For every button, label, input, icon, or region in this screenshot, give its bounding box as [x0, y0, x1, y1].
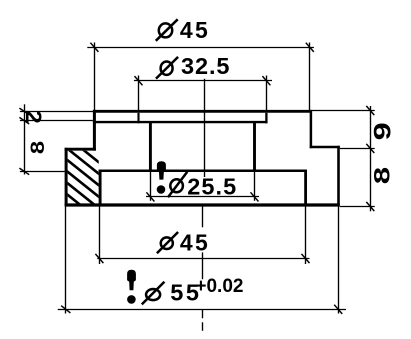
- tick Ø45 bottom left: [95, 254, 103, 263]
- wire: centerline stub upper (axis of symmetry): [204, 79, 206, 177]
- part edge: left step shoulder: [65, 148, 96, 151]
- dimension line Ø45 top: [87, 47, 314, 49]
- part edge: bottom surface: [65, 203, 340, 206]
- diameter symbol for Ø25.5: [168, 172, 187, 197]
- dimension line Ø45 bottom: [97, 258, 309, 260]
- extension line Ø25.5 right (below bore wall): [254, 171, 256, 201]
- tick Ø25.5 right: [251, 192, 259, 201]
- wire: centerline dash 1 below Ø55 line: [202, 310, 204, 319]
- part edge: internal shelf surface: [99, 169, 307, 172]
- part edge: Ø32.5 recess right wall: [265, 113, 267, 124]
- extension line right at y=206.5: [340, 206, 375, 208]
- extension line Ø32.5 left: [138, 76, 140, 111]
- dimension line Ø25.5: [146, 196, 259, 198]
- diameter symbol for Ø55: [142, 282, 165, 305]
- part edge: inner right wall below shelf: [304, 170, 307, 206]
- hatching: section hatch in lower-left flange ring: [66, 136, 152, 262]
- tick left dim bottom: [19, 168, 29, 175]
- extension line right at y=148.4: [340, 148, 375, 150]
- dimension line Ø32.5: [134, 80, 272, 82]
- extension line Ø45 top right: [309, 43, 311, 111]
- extension line left at y=171.4: [20, 171, 65, 173]
- tick Ø25.5 left: [146, 192, 154, 201]
- extension line Ø45 top left: [94, 43, 96, 111]
- wire: centerline segment below part: [202, 207, 204, 228]
- left vertical dimension line (2 and 8): [24, 104, 26, 174]
- extension line right at y=110.5: [312, 110, 375, 112]
- part edge: Ø25.5 bore left wall: [149, 122, 152, 171]
- extension line Ø32.5 right: [266, 76, 268, 111]
- extension line left at y=120.7: [20, 120, 93, 122]
- tick right dim top: [366, 106, 374, 115]
- svg-text:8: 8: [26, 141, 48, 154]
- tick right dim middle: [366, 144, 374, 153]
- svg-text:45: 45: [180, 17, 210, 43]
- tick Ø55 right: [334, 305, 342, 314]
- svg-text:25.5: 25.5: [187, 173, 237, 199]
- svg-text:8: 8: [369, 167, 395, 184]
- part edge: underside of top plate: [93, 121, 268, 123]
- svg-text:32.5: 32.5: [181, 53, 230, 79]
- tick left dim top: [19, 108, 29, 115]
- extension line Ø55 right: [338, 207, 340, 314]
- extension line left at y=111.4: [20, 111, 93, 113]
- part edge: upper left outer wall: [93, 110, 96, 151]
- svg-text:9: 9: [369, 122, 396, 140]
- part edge: upper right outer wall: [310, 110, 313, 148]
- part edge: Ø32.5 recess left wall: [137, 113, 139, 124]
- tick Ø45 bottom right: [302, 254, 310, 263]
- part edge: Ø25.5 bore right wall: [253, 122, 256, 171]
- diameter symbol for Ø45 bottom: [157, 232, 178, 253]
- wire: centerline segment between bottom dimension lines: [202, 252, 204, 279]
- tick left dim middle: [19, 117, 29, 124]
- part edge: inner left wall below shelf: [99, 170, 102, 206]
- part edge: lower left outer wall: [65, 148, 68, 206]
- tick Ø45 top right: [306, 43, 314, 52]
- diameter symbol for Ø45 top: [156, 19, 178, 41]
- tick Ø55 left: [61, 306, 70, 313]
- diameter symbol for Ø32.5: [156, 57, 178, 79]
- right vertical dimension line (9 and 8): [370, 106, 372, 211]
- tick Ø45 top left: [90, 43, 98, 52]
- tick Ø32.5 right: [262, 76, 270, 85]
- extension line Ø45 bottom left: [99, 207, 101, 265]
- exclamation symbol at Ø55: [127, 270, 136, 304]
- tick Ø32.5 left: [135, 76, 143, 85]
- extension line Ø25.5 left (below bore wall): [150, 171, 152, 201]
- dimension line Ø55: [58, 309, 346, 311]
- svg-text:+0.02: +0.02: [195, 276, 243, 297]
- part edge: top surface (Ø45 face): [93, 110, 312, 113]
- extension line Ø45 bottom right: [305, 207, 307, 265]
- part edge: right step shoulder: [310, 146, 340, 148]
- part edge: lower right outer wall: [337, 146, 340, 206]
- extension line Ø55 left: [65, 207, 67, 314]
- svg-text:45: 45: [180, 229, 210, 255]
- tick right dim bottom: [366, 202, 374, 211]
- svg-text:2: 2: [21, 110, 45, 124]
- exclamation symbol at Ø25.5: [157, 161, 166, 194]
- wire: centerline dash 2 below Ø55 line: [202, 322, 204, 331]
